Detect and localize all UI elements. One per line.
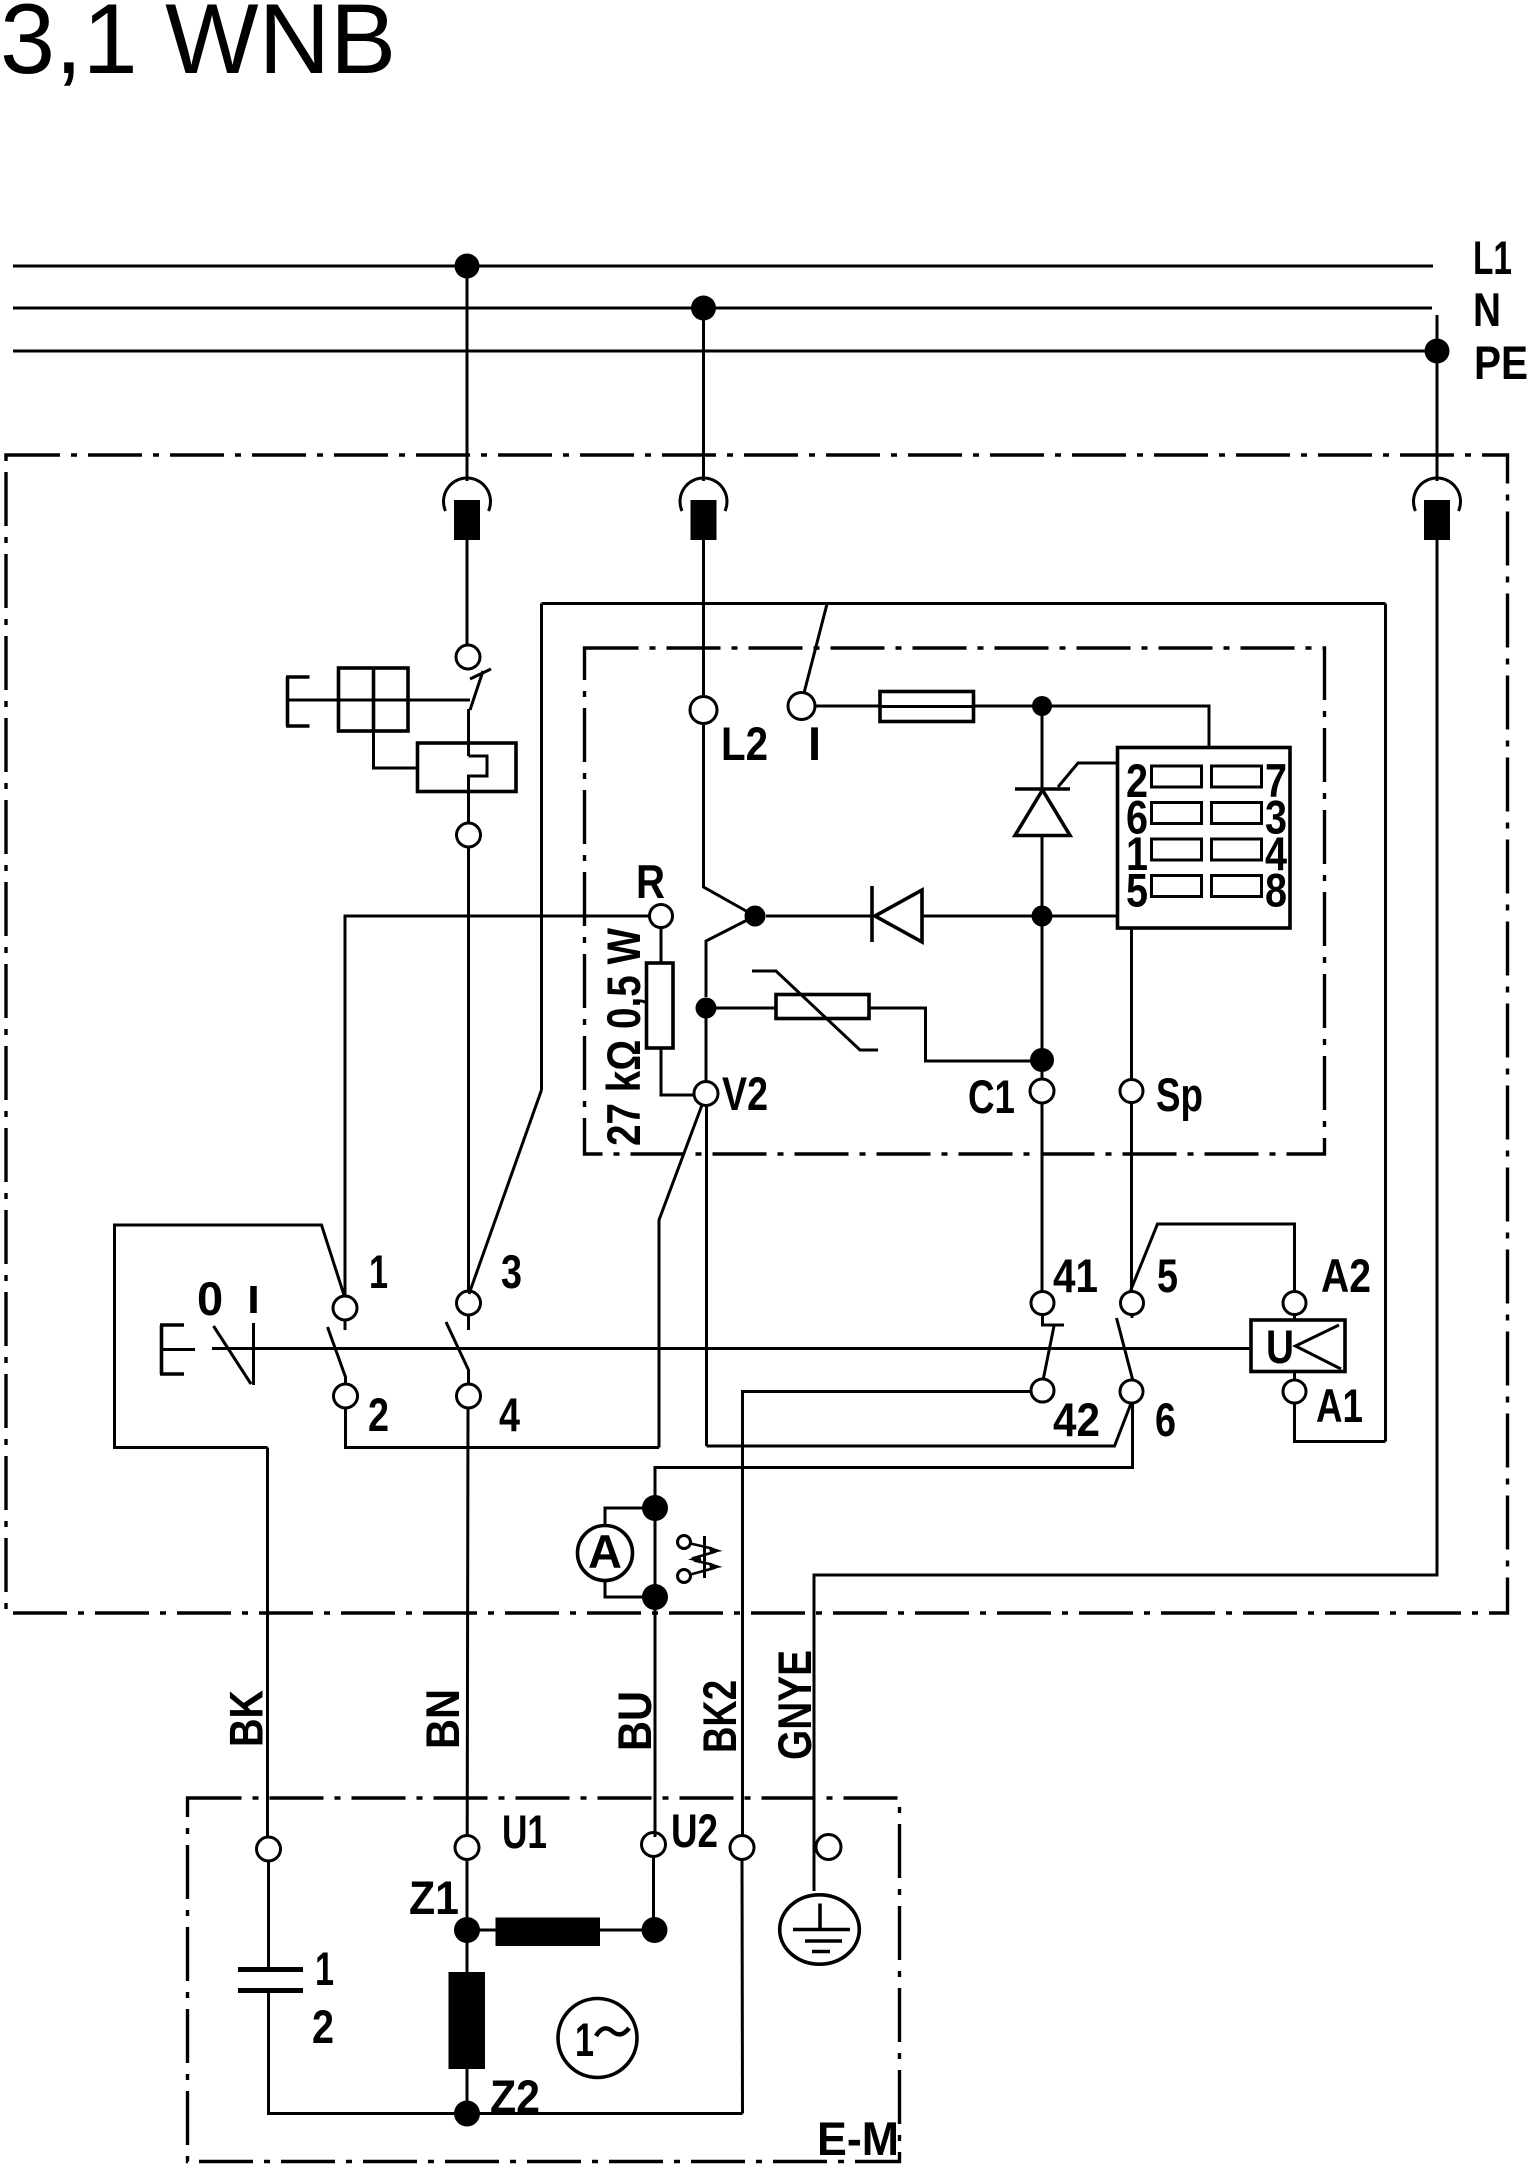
motor terminal BK [257,1837,281,1861]
wire block to Sp [1130,928,1133,1079]
block pin row 4 [1152,876,1262,897]
wire PE rail [13,350,1437,353]
door lock bimetal notch [469,756,488,823]
door actuator symbol E [286,677,310,726]
wire triac gate [1058,763,1118,787]
wire lock to contact 3 [467,847,470,1291]
wire R to resistor [660,928,663,964]
junction dot kink node [745,906,766,927]
contact 1-2 stub [344,1320,347,1330]
door lock coil box [418,743,517,792]
wire ammeter branch bottom [605,1581,655,1598]
junction dot U2 node [642,1917,668,1943]
svg-text:GNYE: GNYE [768,1650,821,1760]
svg-text:Z1: Z1 [409,1871,459,1924]
contact 4 terminal [457,1384,481,1408]
wire diode node to C1 [1041,916,1044,1079]
wire L1 to door switch [466,540,469,645]
wire varistor left [716,1007,776,1010]
wire V2 diagonal to contact2 bus [659,1105,702,1448]
wire relay to A1 [1293,1372,1296,1381]
connector X1 (L1 plug) [443,478,490,540]
wire cap to Z2 [269,1991,743,2114]
svg-text:Z2: Z2 [490,2070,540,2123]
svg-text:R: R [636,855,665,908]
fuse F1 [880,692,974,722]
motor terminal GNYE [816,1835,841,1860]
wire BK2 to Z2 line [741,1860,745,2114]
protective earth symbol [780,1895,860,1964]
junction dot diode node [1032,906,1053,927]
wire bus right drop to A1 [1384,604,1387,1442]
mechanical coupling line [212,1347,1251,1350]
svg-text:N: N [1473,283,1501,336]
wire contact2 to V2 bus [346,1408,660,1448]
contact 5-6 blade [1117,1318,1134,1381]
resistor R1 27k [647,963,674,1048]
flow switch terminal bottom [678,1570,691,1583]
motor terminal U1 [455,1836,479,1860]
relay terminal A2 [1283,1292,1306,1315]
svg-text:0: 0 [197,1272,223,1325]
contact 3-4 stub [467,1315,470,1330]
flow switch terminal top [678,1536,691,1549]
junction dot C1 node [1030,1048,1054,1072]
contact 3 terminal [457,1291,481,1315]
wire L2 transistor kink [704,723,756,997]
svg-text:1: 1 [575,2013,594,2066]
wire contact42 to BK2 [743,1392,1032,1836]
svg-text:5: 5 [1157,1249,1178,1302]
wire door actuator link [288,699,471,702]
door switch S1 terminal [456,645,480,669]
varistor RV1 [752,971,878,1050]
contact 5-6 stub [1131,1315,1134,1319]
junction dot Z2 [454,2101,480,2127]
connector X2 (N plug) [680,478,727,540]
wire L1 drop [466,266,469,481]
pin labels right column [1265,754,1287,917]
wire V2 to contact6 bus [705,1106,708,1447]
door lock lower terminal [457,823,481,847]
svg-text:I: I [808,717,821,770]
wire U2 to node [652,1857,655,1919]
wire Z1 to aux winding [467,1929,496,1932]
svg-text:A2: A2 [1321,1249,1371,1302]
relay arrow [1296,1325,1342,1369]
door window symbol (grid) [339,668,409,731]
svg-text:41: 41 [1053,1249,1098,1302]
terminal Sp [1120,1080,1143,1103]
label I marker [250,1286,257,1313]
enclosure border (outer dash-dot box) [6,455,1508,1613]
electronic module border (inner dash-dot box) [585,648,1325,1154]
svg-text:3,1 WNB: 3,1 WNB [0,0,396,94]
terminal V2 [694,1082,718,1106]
wire winding to Z2 [466,2069,469,2114]
contact 1-2 blade [328,1327,346,1385]
svg-text:V2: V2 [722,1067,768,1120]
svg-text:4: 4 [499,1388,520,1441]
junction dot on PE [1425,339,1450,364]
wire contact6 to BU branch [655,1403,1133,1837]
wire blade to lock box [467,709,470,756]
contact 41-42 blade [1044,1326,1055,1378]
triac V1 [1015,789,1070,836]
aux winding [496,1918,601,1947]
junction dot Z1 [454,1917,480,1943]
wire capacitor branch [267,1861,270,1970]
contact 42 terminal [1031,1379,1054,1402]
svg-text:E-M: E-M [817,2112,899,2165]
wire grid to lock coil [374,731,418,768]
contact 41 terminal [1031,1292,1054,1315]
motor box border E-M [188,1798,900,2162]
manual switch 0-I actuator E [160,1325,195,1374]
svg-text:3: 3 [501,1245,522,1298]
wire U1 to Z1 [466,1860,469,1918]
wire ammeter branch top [605,1508,655,1526]
svg-text:1: 1 [369,1245,388,1298]
capacitor C [238,1970,303,1991]
wire triac to diode node [1041,836,1044,917]
svg-text:BN: BN [416,1689,469,1749]
junction dot fuse node [1032,696,1052,716]
svg-text:5: 5 [1126,864,1148,917]
svg-text:U1: U1 [502,1805,547,1858]
wire Z1 to winding [466,1930,469,1972]
svg-text:8: 8 [1265,864,1287,917]
contact 41-42 stub and foot [1043,1315,1065,1326]
wire I/A1 bus (top horizontal) [542,602,1386,605]
svg-text:PE: PE [1474,336,1528,389]
relay terminal A1 [1283,1380,1306,1403]
contact 2 terminal [334,1384,358,1408]
junction dot on L1 [455,254,480,279]
ammeter A [578,1526,633,1581]
wire N to L2 [702,540,705,697]
motor terminal BK2 [730,1836,754,1860]
wire node to triac [1041,706,1044,789]
wire bus diagonal to contact 3 [469,1090,542,1294]
wire PE down and across [814,540,1437,1891]
junction dot ammeter bottom [642,1584,668,1610]
relay U box [1251,1320,1345,1372]
wire diode to node [922,915,1118,918]
wire bus left drop [540,604,543,1091]
wire contact4 to motor U1 [466,1408,470,1836]
wire aux winding to U2 node [600,1929,655,1932]
junction dot ammeter top [642,1495,668,1521]
block pin row 3 [1152,839,1262,860]
terminal R [650,905,673,928]
svg-text:BU: BU [608,1691,661,1751]
svg-text:42: 42 [1053,1393,1100,1446]
wire contact5 to A2 [1130,1224,1295,1292]
block pin row 2 [1152,803,1262,824]
wire C1 to contact 41 [1041,1103,1044,1292]
contact 1 terminal [333,1296,357,1320]
junction dot on N [691,296,716,321]
wire kink to diode [766,915,872,918]
terminal L2 [690,697,717,724]
wire PE drop [1436,315,1439,481]
flow switch zigzag [688,1536,723,1578]
svg-text:6: 6 [1155,1393,1176,1446]
wire I to fuse [815,705,880,708]
wire L1 rail [13,265,1433,268]
wire I to bus diagonal [804,604,827,693]
contact 5 terminal [1121,1292,1144,1315]
door switch S1 blade [470,671,483,710]
svg-text:Sp: Sp [1156,1068,1203,1121]
terminal I [788,693,815,720]
wire BK loop to contact 1 [115,1225,345,1448]
wire A1 to bus [1295,1403,1386,1442]
wire N rail [13,307,1432,310]
wire fuse to block [974,706,1210,748]
contact 3-4 blade [446,1322,469,1385]
wire node to V2 [705,1008,708,1081]
wire A2 to relay box [1293,1315,1296,1321]
svg-text:2: 2 [368,1388,389,1441]
door switch S1 actuator tick [470,669,491,679]
svg-text:U2: U2 [671,1804,718,1857]
svg-text:BK2: BK2 [693,1680,746,1753]
svg-text:L2: L2 [721,717,768,770]
wire resistor to V2 [661,1048,694,1095]
contact 6 terminal [1120,1380,1143,1403]
motor symbol 1~ [558,1999,637,2078]
wire contact6 to V2 bus [707,1404,1132,1447]
wire BK drop [266,1448,269,1838]
terminal C1 [1030,1079,1054,1103]
connector X3 (PE plug) [1413,478,1460,540]
diode V2d [872,886,922,942]
svg-text:C1: C1 [968,1070,1015,1123]
wire R to contact 1 [345,916,650,1295]
motor terminal U2 [642,1833,666,1857]
svg-text:L1: L1 [1473,231,1512,284]
svg-text:1: 1 [315,1942,334,1995]
connector block K1 [1118,748,1291,929]
svg-text:BK: BK [220,1690,273,1747]
main winding Z1-Z2 [449,1972,486,2069]
wire Sp to contact 5 [1130,1103,1133,1293]
svg-text:27 kΩ 0,5 W: 27 kΩ 0,5 W [597,927,650,1146]
manual switch fixed contact line [252,1323,255,1385]
wire varistor to C1 node [869,1008,1032,1061]
pin labels left column [1126,754,1148,917]
svg-text:A1: A1 [1316,1379,1363,1432]
junction dot varistor node [696,998,717,1019]
wire N drop [702,308,705,481]
svg-text:A: A [588,1525,622,1578]
svg-text:2: 2 [312,2000,334,2053]
block pin row 1 [1152,766,1262,787]
manual switch blade [214,1326,252,1384]
svg-text:U: U [1266,1320,1294,1373]
